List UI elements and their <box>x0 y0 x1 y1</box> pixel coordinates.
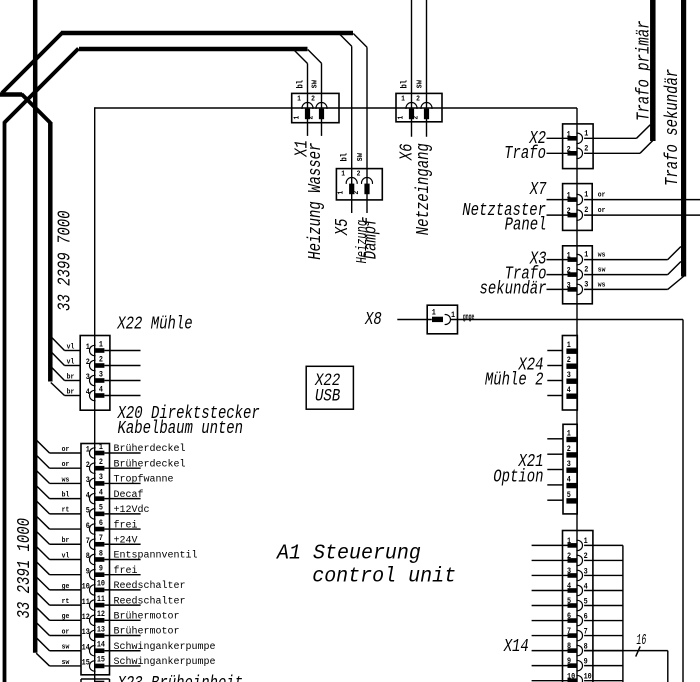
svg-text:1: 1 <box>86 344 91 353</box>
svg-text:14: 14 <box>97 641 106 650</box>
label X8 <box>364 308 382 329</box>
svg-text:2: 2 <box>99 459 104 468</box>
svg-text:X7: X7 <box>529 178 547 199</box>
svg-text:ws: ws <box>598 281 606 290</box>
label sw X1 pin2 <box>310 80 320 89</box>
label 16 (wire count) <box>636 631 646 648</box>
svg-text:ge: ge <box>62 613 70 622</box>
wire diagonal bus from top horizontal to left edge <box>2 33 63 94</box>
svg-text:15: 15 <box>82 659 91 668</box>
wire bus Trafo primaer <box>650 0 656 141</box>
wire X3 pin3 to Trafo sekundaer bus <box>584 276 684 289</box>
svg-text:Tropfwanne: Tropfwanne <box>114 474 174 486</box>
wire X3 pin2 to Trafo sekundaer bus <box>584 262 681 275</box>
svg-text:5: 5 <box>567 598 572 607</box>
connector X3 <box>563 246 593 304</box>
svg-text:1: 1 <box>432 309 437 318</box>
svg-text:Brüherdeckel: Brüherdeckel <box>114 458 186 470</box>
svg-text:X5: X5 <box>331 218 352 236</box>
svg-text:ws: ws <box>598 251 606 260</box>
svg-text:sw: sw <box>355 153 365 162</box>
label or (X7 pin2) <box>598 207 606 216</box>
label Trafo primaer <box>632 20 653 121</box>
wire X5 feed from bus (bends) <box>339 34 367 214</box>
svg-text:1: 1 <box>567 538 572 547</box>
wire bus stub at left edge <box>0 92 22 97</box>
label sw (X3 pin2) <box>598 266 606 275</box>
svg-text:X22 Mühle: X22 Mühle <box>116 312 192 333</box>
connector X22 USB <box>306 366 353 409</box>
wire X3 pin1 to Trafo sekundaer bus <box>584 247 681 260</box>
svg-text:1: 1 <box>584 191 589 200</box>
svg-text:sekundär: sekundär <box>480 278 547 299</box>
wire count slash <box>636 646 641 656</box>
svg-text:3: 3 <box>584 281 589 290</box>
svg-text:11: 11 <box>82 598 91 607</box>
svg-text:33 2391 1000: 33 2391 1000 <box>13 518 34 619</box>
svg-text:3: 3 <box>99 474 104 483</box>
svg-text:4: 4 <box>99 489 104 498</box>
label Trafo (X3) <box>505 263 547 284</box>
svg-text:10: 10 <box>567 673 576 682</box>
svg-text:14: 14 <box>82 644 91 653</box>
svg-text:1: 1 <box>397 116 406 120</box>
label Netztaster <box>462 199 546 220</box>
svg-text:1: 1 <box>567 430 572 439</box>
svg-text:2: 2 <box>86 359 91 368</box>
wire X21 stubs <box>547 439 563 500</box>
svg-text:2: 2 <box>99 356 104 365</box>
wire X14 outputs to collector <box>584 545 623 680</box>
wire X1 feed from bus (bends) <box>294 50 322 136</box>
svg-text:Brühermotor: Brühermotor <box>114 626 180 638</box>
wire X2 pin1 to Trafo primaer bus <box>584 125 650 139</box>
label bl X5 pin1 <box>339 153 350 162</box>
wire X7 pin1 to right edge <box>584 199 700 201</box>
label X2 <box>528 127 546 148</box>
wire bus left vertical to bottom edge <box>3 122 7 682</box>
svg-text:7: 7 <box>86 538 90 547</box>
connector X6 <box>396 93 442 121</box>
svg-text:13: 13 <box>97 626 106 635</box>
svg-text:8: 8 <box>99 550 104 559</box>
svg-text:Entspannventil: Entspannventil <box>114 550 198 562</box>
label X20 Direktstecker title <box>117 402 260 423</box>
label sekundaer (X3) <box>480 278 547 299</box>
connector X21 <box>563 424 577 514</box>
svg-text:4: 4 <box>86 492 91 501</box>
svg-text:2: 2 <box>353 191 362 195</box>
svg-text:or: or <box>62 628 70 637</box>
connector X22 Muehle <box>80 336 110 411</box>
label or (X7 pin1) <box>598 191 606 200</box>
wire X20 feeds from bus 33 2391 1000 <box>36 440 81 666</box>
label bl X1 pin1 <box>295 80 306 89</box>
svg-text:Brüherdeckel: Brüherdeckel <box>114 443 186 455</box>
svg-text:+24V: +24V <box>114 535 138 546</box>
label 33 2391 1000 <box>13 518 34 619</box>
wire bus Trafo sekundaer <box>681 0 686 277</box>
wire X20 outputs right (signal lines) <box>104 453 140 666</box>
svg-text:2: 2 <box>416 95 420 104</box>
wire X8 from label <box>397 319 432 321</box>
svg-text:12: 12 <box>82 614 91 623</box>
svg-text:3: 3 <box>86 477 91 486</box>
svg-text:sw: sw <box>598 266 606 275</box>
label X6 <box>395 143 416 161</box>
svg-text:gnge: gnge <box>463 313 475 323</box>
svg-text:X23 Brüheinheit: X23 Brüheinheit <box>117 672 243 682</box>
wire X14 collector vertical <box>622 545 624 682</box>
connector X2 <box>563 124 594 169</box>
svg-text:4: 4 <box>567 387 572 396</box>
svg-text:1: 1 <box>567 342 572 351</box>
svg-text:3: 3 <box>567 461 572 470</box>
svg-text:bl: bl <box>62 491 70 500</box>
wire X6 feed from top edge <box>412 0 427 137</box>
svg-text:1: 1 <box>86 446 91 455</box>
svg-text:or: or <box>62 446 70 455</box>
svg-text:4: 4 <box>567 476 572 485</box>
svg-text:br: br <box>67 373 75 382</box>
svg-text:ge: ge <box>62 582 70 591</box>
svg-text:3: 3 <box>86 374 91 383</box>
svg-text:X14: X14 <box>503 635 529 656</box>
svg-text:4: 4 <box>86 389 91 398</box>
svg-text:1: 1 <box>297 95 301 104</box>
svg-text:control unit: control unit <box>312 565 456 589</box>
svg-text:br: br <box>62 537 70 546</box>
svg-text:1: 1 <box>451 311 456 320</box>
label sw X5 pin2 <box>355 153 365 162</box>
connector X7 <box>563 184 593 231</box>
svg-text:sw: sw <box>62 658 70 667</box>
label ws (X3 pin1) <box>598 251 606 260</box>
svg-text:Trafo: Trafo <box>504 142 546 163</box>
svg-text:10: 10 <box>82 583 91 592</box>
label Heizung (Dampf line 1) <box>353 220 370 264</box>
svg-text:Schwingankerpumpe: Schwingankerpumpe <box>114 656 216 668</box>
svg-text:X8: X8 <box>364 308 382 329</box>
label Trafo (X2) <box>504 142 546 163</box>
svg-text:5: 5 <box>86 507 91 516</box>
connector X8 <box>427 305 457 334</box>
connector X1 <box>292 93 339 122</box>
svg-text:6: 6 <box>567 613 572 622</box>
wire X14 pin8 harness to bottom edge <box>584 651 668 682</box>
label X7 <box>529 178 547 199</box>
svg-text:+12Vdc: +12Vdc <box>114 504 150 516</box>
label br (X22M pin4) <box>67 388 75 397</box>
svg-text:8: 8 <box>86 553 91 562</box>
svg-text:sw: sw <box>62 643 70 652</box>
svg-text:2: 2 <box>412 116 421 120</box>
svg-text:2: 2 <box>584 145 589 154</box>
svg-text:33 2399 7000: 33 2399 7000 <box>53 210 74 311</box>
label bl X6 pin1 <box>399 80 410 89</box>
svg-text:3: 3 <box>567 372 572 381</box>
label ws (X3 pin3) <box>598 281 606 290</box>
svg-text:9: 9 <box>567 658 571 667</box>
A1 control unit box left edge <box>94 107 96 682</box>
label X24 <box>518 353 544 374</box>
svg-text:4: 4 <box>99 386 104 395</box>
wire X8 to right then down to bottom edge <box>451 320 683 682</box>
label X1 <box>291 140 312 158</box>
svg-text:2: 2 <box>584 266 589 275</box>
svg-text:1: 1 <box>99 341 104 350</box>
svg-text:vl: vl <box>67 358 75 367</box>
A1 control unit box top edge <box>95 107 577 109</box>
svg-text:Panel: Panel <box>505 214 547 235</box>
wire X22 Muehle feeds from bus 33 2399 7000 <box>51 338 80 396</box>
svg-text:4: 4 <box>567 583 572 592</box>
svg-text:Reedschalter: Reedschalter <box>114 580 186 592</box>
label A1 Steuerung <box>275 542 421 566</box>
labels X20 signal names <box>114 443 216 668</box>
svg-text:2: 2 <box>307 116 316 120</box>
svg-text:2: 2 <box>86 462 91 471</box>
svg-text:8: 8 <box>567 643 572 652</box>
svg-text:2: 2 <box>567 553 572 562</box>
label br (X22M pin3) <box>67 373 75 382</box>
labels wire colors X20 <box>62 446 70 668</box>
svg-text:Decaf: Decaf <box>114 489 144 501</box>
svg-text:1: 1 <box>293 116 302 120</box>
label Option <box>493 466 543 487</box>
label Heizung Wasser <box>304 143 325 260</box>
svg-text:9: 9 <box>99 565 103 574</box>
label Muehle 2 <box>485 369 544 390</box>
wire X3 label stubs <box>547 260 568 290</box>
svg-text:sw: sw <box>415 80 425 89</box>
svg-text:13: 13 <box>82 629 91 638</box>
svg-text:Trafo primär: Trafo primär <box>632 20 653 121</box>
svg-text:or: or <box>62 461 70 470</box>
label vl (X22M pin1) <box>67 343 75 352</box>
A1 control unit box right edge <box>576 108 578 682</box>
svg-text:12: 12 <box>97 611 106 620</box>
svg-text:2: 2 <box>567 446 572 455</box>
wire X24 stubs <box>547 351 563 396</box>
label Dampf (line 2) <box>360 216 381 259</box>
svg-text:ws: ws <box>62 476 70 485</box>
wire bus top horizontal feed Heizung Dampf <box>61 31 353 36</box>
svg-text:frei: frei <box>114 565 138 577</box>
svg-text:3: 3 <box>99 371 104 380</box>
label control unit <box>312 565 456 589</box>
label vl (X22M pin2) <box>67 358 75 367</box>
svg-text:Mühle 2: Mühle 2 <box>485 369 544 390</box>
svg-text:1: 1 <box>584 130 589 139</box>
svg-text:or: or <box>598 191 606 200</box>
wire X14 left stubs <box>532 545 568 680</box>
connector X23 (partial at bottom edge) <box>81 679 110 682</box>
svg-text:2: 2 <box>567 357 572 366</box>
label sw X6 pin2 <box>415 80 425 89</box>
svg-text:9: 9 <box>86 568 90 577</box>
svg-text:10: 10 <box>97 580 106 589</box>
label Netzeingang <box>412 143 433 235</box>
svg-text:A1 Steuerung: A1 Steuerung <box>275 542 421 566</box>
svg-text:15: 15 <box>97 656 106 665</box>
svg-text:Schwingankerpumpe: Schwingankerpumpe <box>114 641 216 653</box>
svg-text:frei: frei <box>114 519 138 531</box>
wire bus 33 2399 7000 vertical <box>48 122 53 382</box>
svg-text:rt: rt <box>62 506 70 515</box>
svg-text:Option: Option <box>493 466 543 487</box>
svg-text:7: 7 <box>99 535 103 544</box>
wire bus 33 2391 1000 vertical <box>33 0 38 653</box>
svg-text:Netzeingang: Netzeingang <box>412 143 433 235</box>
svg-text:1: 1 <box>401 95 405 104</box>
wire X2 label stubs <box>547 138 568 153</box>
svg-text:1: 1 <box>584 251 589 260</box>
svg-text:Brühermotor: Brühermotor <box>114 611 180 623</box>
svg-text:7: 7 <box>567 628 571 637</box>
svg-text:3: 3 <box>567 568 572 577</box>
svg-text:2: 2 <box>357 170 361 179</box>
svg-text:Dampf: Dampf <box>360 216 381 259</box>
label X21 <box>518 450 544 471</box>
svg-text:bl: bl <box>295 80 306 89</box>
svg-text:vl: vl <box>67 343 75 352</box>
wire diagonal bus from second horizontal to left vertical <box>5 49 79 123</box>
svg-text:rt: rt <box>62 598 70 607</box>
svg-text:Kabelbaum unten: Kabelbaum unten <box>118 417 244 438</box>
svg-text:1: 1 <box>337 191 346 195</box>
svg-text:USB: USB <box>315 386 341 406</box>
svg-text:5: 5 <box>567 492 572 501</box>
wire bus second horizontal feed Heizung Wasser <box>79 47 308 52</box>
label X23 title (clipped) <box>117 672 243 682</box>
svg-text:Trafo sekundär: Trafo sekundär <box>661 69 682 186</box>
svg-text:5: 5 <box>99 504 104 513</box>
svg-text:6: 6 <box>99 519 104 528</box>
wire X7 label stubs <box>547 200 568 216</box>
svg-text:2: 2 <box>584 207 589 216</box>
svg-text:Reedschalter: Reedschalter <box>114 595 186 607</box>
svg-text:bl: bl <box>399 80 410 89</box>
wire X2 pin2 to Trafo primaer bus <box>584 141 653 154</box>
connector X5 <box>336 169 382 200</box>
svg-text:sw: sw <box>310 80 320 89</box>
label X14 <box>503 635 529 656</box>
label X22 Muehle title <box>116 312 192 333</box>
svg-text:Heizung Wasser: Heizung Wasser <box>304 143 325 260</box>
wire X22 Muehle outputs right <box>104 351 140 396</box>
label 33 2399 7000 <box>53 210 74 311</box>
wire diagonal bus into 33 2399 7000 <box>22 94 51 123</box>
svg-text:br: br <box>67 388 75 397</box>
label X3 <box>529 248 547 269</box>
svg-text:6: 6 <box>86 522 91 531</box>
connector X20 <box>81 443 110 674</box>
label Kabelbaum unten title <box>118 417 244 438</box>
wire X7 pin2 to right edge <box>584 214 700 216</box>
svg-text:1: 1 <box>99 443 104 452</box>
svg-text:bl: bl <box>339 153 350 162</box>
label gnge <box>463 313 475 323</box>
svg-text:or: or <box>598 207 606 216</box>
svg-text:vl: vl <box>62 552 70 561</box>
label Panel <box>505 214 547 235</box>
connector X14 <box>563 531 593 682</box>
svg-text:16: 16 <box>636 631 646 648</box>
label Trafo sekundaer <box>661 69 682 186</box>
label X5 <box>331 218 352 236</box>
connector X24 <box>562 336 577 411</box>
svg-text:2: 2 <box>311 95 315 104</box>
svg-text:11: 11 <box>97 596 106 605</box>
svg-text:1: 1 <box>341 170 345 179</box>
